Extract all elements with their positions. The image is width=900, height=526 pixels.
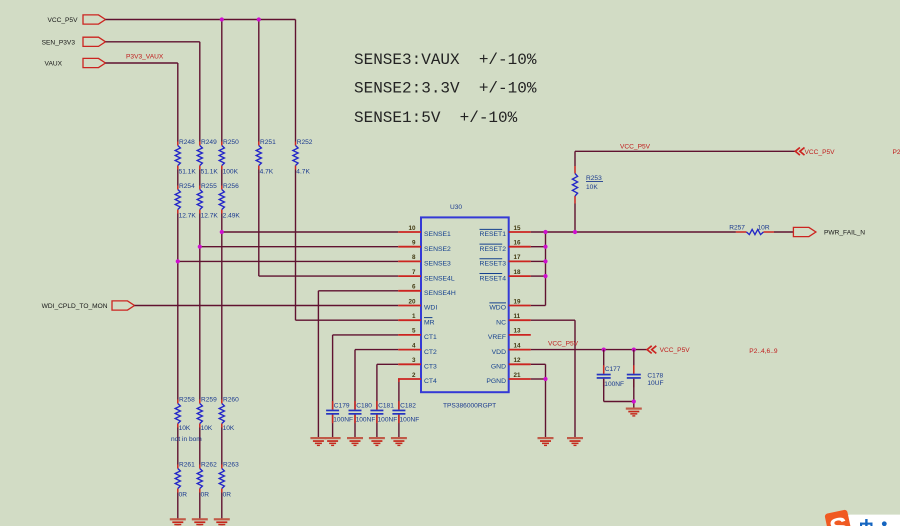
resistor R259 <box>197 396 217 432</box>
svg-text:R262: R262 <box>201 461 217 468</box>
ground G-sense4h <box>310 437 326 446</box>
resistor R256 <box>219 183 240 220</box>
ground G-R261 <box>170 518 186 526</box>
svg-text:0R: 0R <box>179 491 188 498</box>
pin 12 GND <box>491 357 531 370</box>
svg-text:R263: R263 <box>223 461 239 468</box>
pin 20 WDI <box>398 298 437 311</box>
IC U30 part number <box>443 402 496 409</box>
wire col1 seg d <box>177 428 179 465</box>
junction sense2 <box>198 245 202 249</box>
resistor R253 <box>572 166 603 204</box>
svg-text:10UF: 10UF <box>647 380 663 387</box>
svg-text:VDD: VDD <box>492 349 506 356</box>
svg-text:10K: 10K <box>586 184 598 191</box>
svg-text:SENSE3:VAUX +/-10%: SENSE3:VAUX +/-10% <box>354 51 537 69</box>
wire CT1 row <box>333 334 399 336</box>
note not in bom <box>171 436 202 443</box>
svg-text:RESET4: RESET4 <box>480 275 507 282</box>
ground G-C179 <box>325 437 341 446</box>
svg-text:5: 5 <box>412 328 416 335</box>
svg-text:16: 16 <box>514 240 522 247</box>
wire CT1 gnd <box>332 415 334 437</box>
svg-text:CT2: CT2 <box>424 349 437 356</box>
svg-text:P2..4,6..9: P2..4,6..9 <box>893 149 900 156</box>
capacitor C179 <box>326 401 353 423</box>
junction R253-reset1 <box>573 230 577 234</box>
pin 16 RESET2 <box>480 240 531 253</box>
port SEN_P3V3 <box>42 37 106 46</box>
wire col3 seg b <box>221 170 223 186</box>
pin 3 CT3 <box>398 357 437 370</box>
wire CT3 row <box>377 363 398 365</box>
svg-text:6: 6 <box>412 284 416 291</box>
wire R253 bottom <box>574 204 576 233</box>
wire col3 seg d <box>221 428 223 465</box>
wire SEN_P3V3 <box>106 41 200 43</box>
wire NC drop <box>574 320 576 437</box>
pin 13 VREF <box>488 328 531 341</box>
resistor R255 <box>197 183 218 220</box>
wire MR row <box>296 319 399 321</box>
svg-text:SEN_P3V3: SEN_P3V3 <box>42 39 76 46</box>
capacitor C182 <box>392 401 419 423</box>
wire GND drop <box>545 364 547 437</box>
svg-text:R258: R258 <box>179 396 195 403</box>
wire col5 seg a <box>295 20 297 142</box>
capacitor C177 <box>597 365 624 388</box>
port PWR_FAIL_N <box>793 227 865 236</box>
wire col2 seg d <box>199 428 201 465</box>
svg-text:100NF: 100NF <box>356 417 376 424</box>
svg-text:4.7K: 4.7K <box>260 169 274 176</box>
junction sense3 <box>176 259 180 263</box>
resistor R249 <box>197 139 218 176</box>
pin 19 WDO <box>489 298 530 311</box>
junction capgnd <box>632 399 636 403</box>
svg-text:RESET3: RESET3 <box>480 261 507 268</box>
svg-text:100NF: 100NF <box>604 381 624 388</box>
svg-text:VAUX: VAUX <box>45 61 63 68</box>
svg-text:not in bom: not in bom <box>171 436 202 443</box>
svg-text:C181: C181 <box>378 403 394 410</box>
svg-text:15: 15 <box>514 225 522 232</box>
resistor R252 <box>293 139 313 176</box>
resistor R262 <box>197 461 217 498</box>
svg-text:R250: R250 <box>223 139 239 146</box>
port VAUX <box>45 58 106 67</box>
svg-text:10K: 10K <box>201 425 213 432</box>
svg-text:CT4: CT4 <box>424 378 437 385</box>
resistor R260 <box>219 396 239 432</box>
op-amp U1 designator U30 <box>450 204 462 211</box>
CT4 corner stub <box>398 378 400 382</box>
junction reset2 <box>543 245 547 249</box>
resistor R263 <box>219 461 239 498</box>
svg-text:R256: R256 <box>223 183 239 190</box>
svg-text:TPS386000RGPT: TPS386000RGPT <box>443 402 496 409</box>
ground G-R263 <box>214 518 230 526</box>
svg-text:100NF: 100NF <box>400 417 420 424</box>
svg-text:2: 2 <box>412 372 416 379</box>
wire CT2 row <box>355 349 398 351</box>
svg-text:0R: 0R <box>201 491 210 498</box>
svg-text:SENSE4L: SENSE4L <box>424 275 455 282</box>
port WDI_CPLD_TO_MON <box>42 301 135 310</box>
resistor R257 <box>729 225 774 235</box>
wire VAUX <box>106 62 178 64</box>
wire GND link <box>531 363 546 365</box>
wire SENSE2 row <box>200 246 398 248</box>
junction reset4 <box>543 274 547 278</box>
note SENSE3 <box>354 51 537 69</box>
wire SENSE4L row <box>259 275 398 277</box>
wire col5 seg b <box>295 170 297 321</box>
wire col1 seg a <box>177 63 179 142</box>
svg-text:19: 19 <box>514 298 522 305</box>
capacitor C181 <box>370 401 397 423</box>
wire RESET1 row <box>531 231 736 233</box>
svg-text:0R: 0R <box>223 491 232 498</box>
wire col4 seg a <box>258 20 260 142</box>
svg-text:VCC_P5V: VCC_P5V <box>620 143 651 150</box>
pin 5 CT1 <box>398 328 437 341</box>
net label VCC_P5V vdd <box>548 340 579 347</box>
svg-text:2.49K: 2.49K <box>223 213 241 220</box>
net label P2 ports <box>749 348 778 355</box>
svg-text:100NF: 100NF <box>378 417 398 424</box>
svg-text:C179: C179 <box>334 403 350 410</box>
pin 4 CT2 <box>398 342 437 355</box>
wire SENSE3 row <box>178 260 398 262</box>
svg-text:WDI: WDI <box>424 305 437 312</box>
svg-text:MR: MR <box>424 319 435 326</box>
net label VCC_P5V top <box>620 143 651 150</box>
wire CT3 gnd <box>376 415 378 437</box>
svg-text:SENSE1: SENSE1 <box>424 231 451 238</box>
junction pgnd <box>543 377 547 381</box>
svg-text:R248: R248 <box>179 139 195 146</box>
svg-text:SENSE2: SENSE2 <box>424 246 451 253</box>
pin 15 RESET1 <box>480 225 531 238</box>
svg-text:R257: R257 <box>729 225 745 232</box>
svg-text:C182: C182 <box>400 403 416 410</box>
svg-text:7: 7 <box>412 269 416 276</box>
junction reset1 <box>543 230 547 234</box>
ground G-GND <box>538 437 554 446</box>
pin 14 VDD <box>492 342 531 355</box>
port VCC_P5V <box>47 15 105 24</box>
svg-text:20: 20 <box>408 298 416 305</box>
svg-text:VREF: VREF <box>488 334 506 341</box>
pin 11 NC <box>496 313 531 326</box>
svg-text:10K: 10K <box>223 425 235 432</box>
pin 17 RESET3 <box>480 254 531 267</box>
wire col3 seg e <box>221 493 223 519</box>
wire RESET4 link <box>531 275 546 277</box>
wire col4 seg b <box>258 170 260 277</box>
svg-text:R251: R251 <box>260 139 276 146</box>
resistor R261 <box>175 461 195 498</box>
pin 10 SENSE1 <box>398 225 451 238</box>
wire WDO link <box>531 305 546 307</box>
resistor R254 <box>175 183 196 220</box>
svg-text:VCC_P5V: VCC_P5V <box>805 149 836 156</box>
junction reset3 <box>543 259 547 263</box>
svg-text:C180: C180 <box>356 403 372 410</box>
svg-text:PWR_FAIL_N: PWR_FAIL_N <box>824 230 865 237</box>
resistor R258 <box>175 396 195 432</box>
ground G-C178 <box>626 408 642 417</box>
wire col2 seg a <box>199 42 201 142</box>
wire col2 seg b <box>199 170 201 186</box>
wire VDD rail <box>531 349 647 351</box>
svg-text:4.7K: 4.7K <box>296 169 310 176</box>
svg-text:PGND: PGND <box>486 378 506 385</box>
svg-text:18: 18 <box>514 269 522 276</box>
wire CT2 drop <box>354 350 356 410</box>
wire C178 bottom <box>633 379 635 408</box>
net label P3V3_VAUX <box>126 54 164 61</box>
svg-text:CT3: CT3 <box>424 364 437 371</box>
wire C178 top <box>633 350 635 374</box>
pin 8 SENSE3 <box>398 254 451 267</box>
wire CT3 drop <box>376 364 378 409</box>
svg-text:VCC_P5V: VCC_P5V <box>548 340 579 347</box>
IC U30 body <box>421 217 509 392</box>
svg-text:SENSE3: SENSE3 <box>424 261 451 268</box>
svg-text:R249: R249 <box>201 139 217 146</box>
svg-text:3: 3 <box>412 357 416 364</box>
capacitor C180 <box>349 401 376 423</box>
pin 7 SENSE4L <box>398 269 455 282</box>
wire col3 seg c <box>221 214 223 400</box>
capacitor C178 <box>627 365 664 387</box>
svg-text:P3V3_VAUX: P3V3_VAUX <box>126 54 164 61</box>
junction vdd-c177 <box>602 348 606 352</box>
wire NC link <box>531 319 575 321</box>
wire CT4 drop <box>398 379 400 410</box>
svg-text:11: 11 <box>514 313 521 320</box>
ground G-R262 <box>192 518 208 526</box>
wire R257 to port <box>774 231 793 233</box>
logo watermark <box>824 509 900 526</box>
svg-text:12.7K: 12.7K <box>201 213 219 220</box>
wire col3 seg a <box>221 20 223 142</box>
wire col1 seg b <box>177 170 179 186</box>
svg-text:10K: 10K <box>179 425 191 432</box>
wire PGND link <box>531 378 546 380</box>
wire CT4 gnd <box>398 415 400 437</box>
power symbol VCC_P5V right <box>795 148 835 156</box>
svg-text:R252: R252 <box>297 139 313 146</box>
wire VCC top right <box>575 150 795 152</box>
note SENSE2 <box>354 80 537 98</box>
wire cap join <box>604 401 634 403</box>
wire reset vertical <box>545 232 547 306</box>
svg-text:17: 17 <box>514 254 522 261</box>
svg-text:SENSE2:3.3V +/-10%: SENSE2:3.3V +/-10% <box>354 80 537 98</box>
svg-text:51.1K: 51.1K <box>179 169 197 176</box>
svg-text:12.7K: 12.7K <box>179 213 197 220</box>
wire WDI row <box>135 305 399 307</box>
svg-text:14: 14 <box>514 342 522 349</box>
svg-text:C178: C178 <box>647 373 663 380</box>
pin 2 CT4 <box>398 372 437 385</box>
svg-text:GND: GND <box>491 364 506 371</box>
svg-text:10R: 10R <box>758 225 770 232</box>
pin 18 RESET4 <box>480 269 531 282</box>
ground G-NC <box>567 437 583 446</box>
svg-text:51.1K: 51.1K <box>201 169 219 176</box>
resistor R251 <box>256 139 276 176</box>
wire CT1 drop <box>332 335 334 410</box>
junction vdd-c178 <box>632 348 636 352</box>
junction top B <box>257 17 261 21</box>
svg-text:R255: R255 <box>201 183 217 190</box>
svg-text:R261: R261 <box>179 461 195 468</box>
junction sense1 <box>220 230 224 234</box>
wire CT4 row <box>397 378 400 380</box>
pin 21 PGND <box>486 372 530 385</box>
svg-text:NC: NC <box>496 319 506 326</box>
wire RESET3 link <box>531 260 546 262</box>
svg-text:P2..4,6..9: P2..4,6..9 <box>749 348 778 355</box>
svg-text:R260: R260 <box>223 396 239 403</box>
pin 1 MR <box>398 313 434 326</box>
wire VCC_P5V top <box>106 19 296 21</box>
svg-text:100K: 100K <box>223 169 239 176</box>
wire col2 seg e <box>199 493 201 519</box>
wire C177 bottom <box>603 379 605 402</box>
junction top A <box>220 17 224 21</box>
resistor R250 <box>219 139 239 176</box>
wire col1 seg c <box>177 214 179 400</box>
wire SENSE4H row <box>318 290 398 292</box>
wire CT2 gnd <box>354 415 356 437</box>
svg-text:VCC_P5V: VCC_P5V <box>47 17 78 24</box>
pin 9 SENSE2 <box>398 240 451 253</box>
svg-text:R254: R254 <box>179 183 195 190</box>
svg-text:4: 4 <box>412 342 416 349</box>
svg-text:21: 21 <box>514 372 522 379</box>
pin 6 SENSE4H <box>398 284 456 297</box>
wire col2 seg c <box>199 214 201 400</box>
wire col1 seg e <box>177 493 179 519</box>
svg-text:8: 8 <box>412 254 416 261</box>
wire R253 top <box>574 151 576 166</box>
svg-text:C177: C177 <box>605 366 621 373</box>
net label P2 clipped <box>893 149 900 156</box>
ground G-C182 <box>391 437 407 446</box>
svg-text:VCC_P5V: VCC_P5V <box>660 347 691 354</box>
svg-text:U30: U30 <box>450 204 462 211</box>
svg-text:100NF: 100NF <box>333 417 353 424</box>
svg-text:R259: R259 <box>201 396 217 403</box>
svg-text:10: 10 <box>408 225 416 232</box>
svg-text:SENSE1:5V +/-10%: SENSE1:5V +/-10% <box>354 109 518 127</box>
svg-text:WDI_CPLD_TO_MON: WDI_CPLD_TO_MON <box>42 303 108 310</box>
note SENSE1 <box>354 109 518 127</box>
power symbol VCC_P5V vdd <box>647 346 690 354</box>
svg-text:9: 9 <box>412 240 416 247</box>
svg-text:1: 1 <box>412 313 416 320</box>
svg-text:RESET1: RESET1 <box>480 231 507 238</box>
svg-text:SENSE4H: SENSE4H <box>424 290 456 297</box>
wire SENSE4H drop <box>317 291 319 437</box>
ground G-C180 <box>347 437 363 446</box>
wire RESET2 link <box>531 246 546 248</box>
svg-text:WDO: WDO <box>489 305 506 312</box>
svg-text:CT1: CT1 <box>424 334 437 341</box>
ground G-C181 <box>369 437 385 446</box>
svg-text:13: 13 <box>514 328 522 335</box>
wire SENSE1 row <box>222 231 398 233</box>
svg-text:12: 12 <box>514 357 522 364</box>
wire C177 top <box>603 350 605 374</box>
resistor R248 <box>175 139 196 176</box>
svg-text:RESET2: RESET2 <box>480 246 507 253</box>
